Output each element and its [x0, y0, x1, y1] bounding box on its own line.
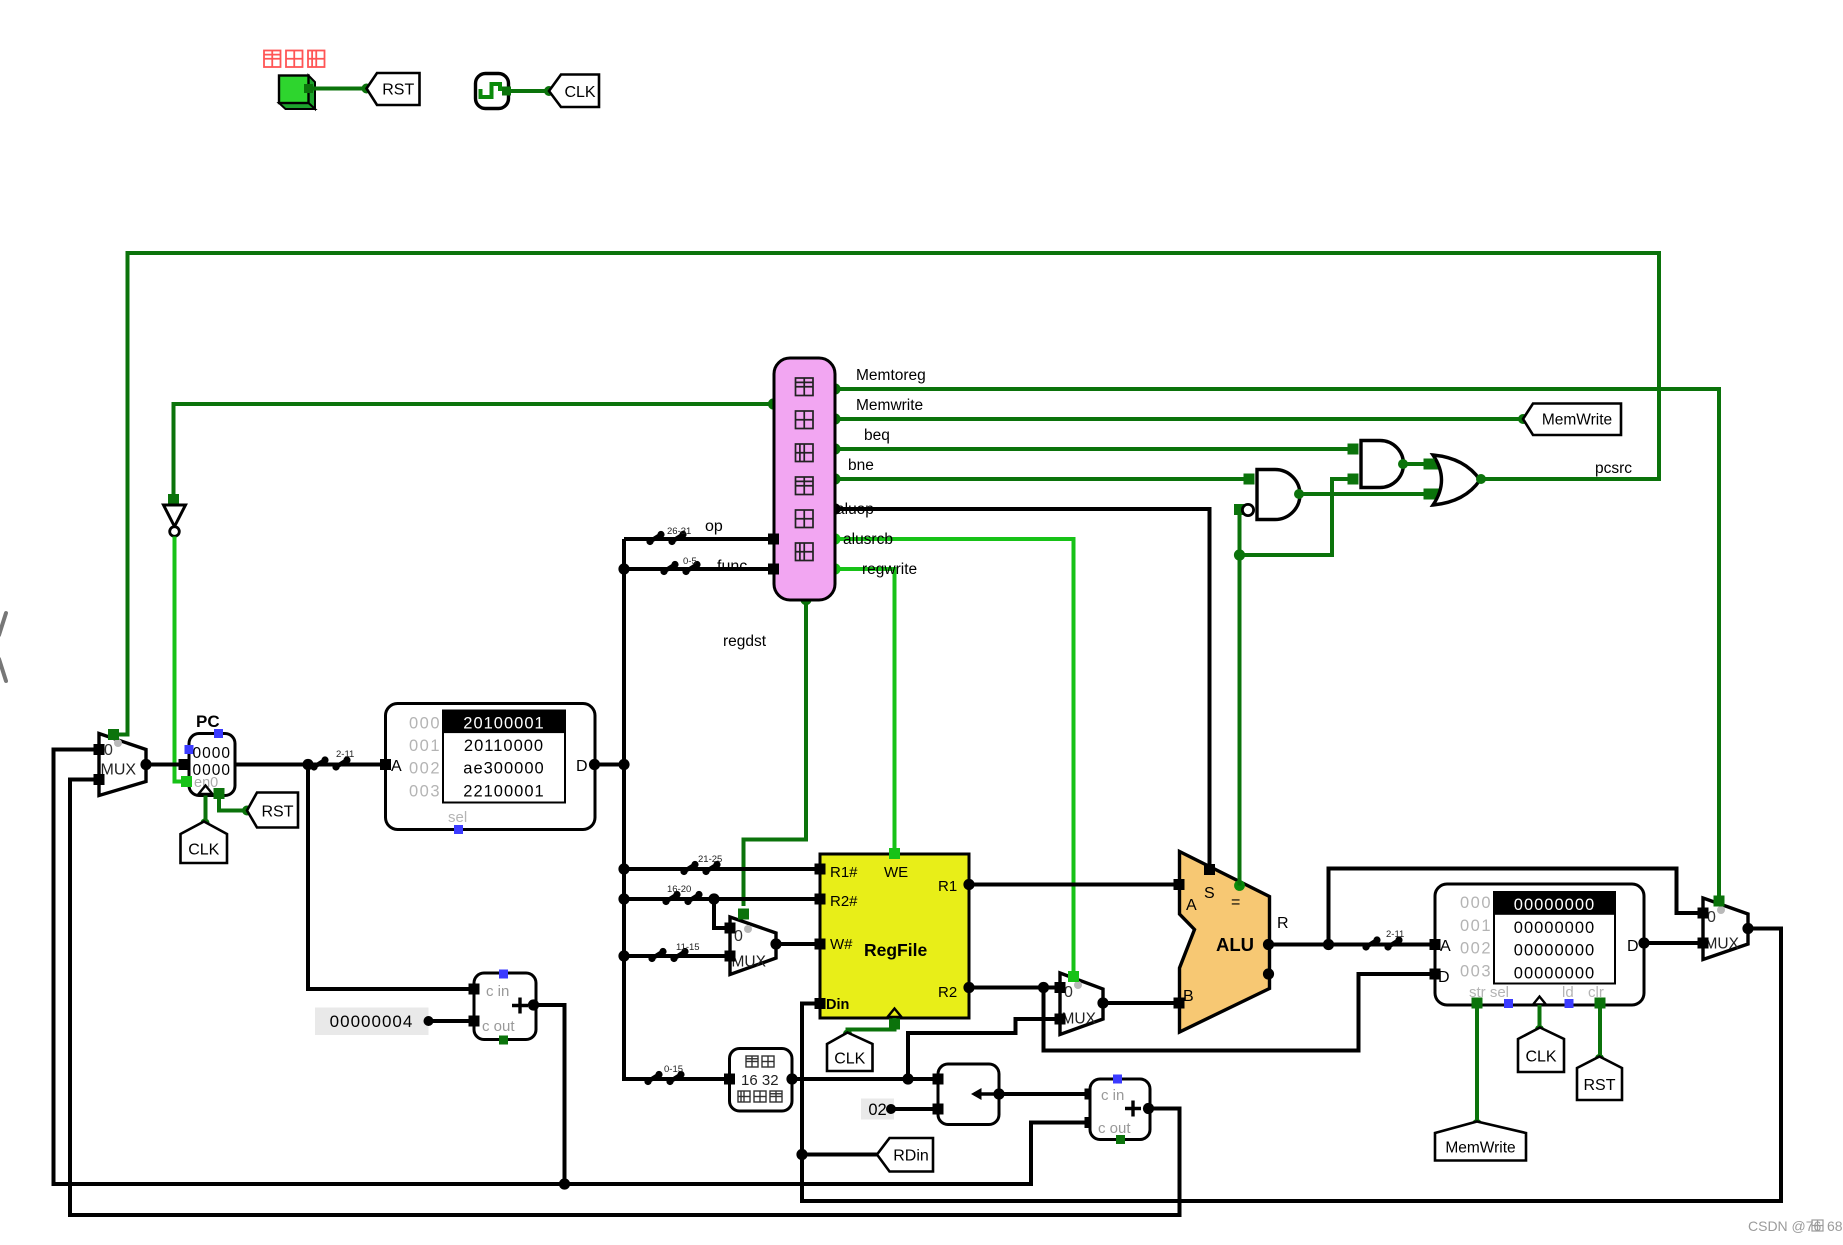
- node ROM D output: [589, 759, 600, 770]
- svg-text:PC: PC: [196, 712, 220, 731]
- pin pad MUX4 select (over): [1714, 896, 1725, 907]
- pin pad AND1 input A: [1244, 474, 1255, 485]
- svg-text:R1: R1: [938, 878, 957, 895]
- pin pad MUX2 input 0 (over): [725, 923, 736, 934]
- svg-text:0-5: 0-5: [683, 556, 697, 567]
- node MUX4 output: [1742, 923, 1753, 934]
- svg-text:R2: R2: [938, 984, 957, 1001]
- svg-text:alusrcb: alusrcb: [843, 531, 893, 548]
- node controller alusrcb pin: [829, 533, 840, 544]
- wire RDin branch: [802, 1153, 877, 1157]
- wire Memwrite net: [835, 417, 1523, 421]
- splitter bits 11-15: [648, 955, 655, 962]
- RAM clock triangle: [1533, 997, 1546, 1005]
- pin pad RegFile WE pin (over): [889, 848, 900, 859]
- inverter NOT gate pointing down: [164, 505, 186, 527]
- node RST tunnel tip (PC): [242, 806, 252, 816]
- node ALU equal output: [1234, 880, 1245, 891]
- svg-text:CLK: CLK: [834, 1050, 865, 1067]
- multiplexer MUX4 (writeback select): [1703, 898, 1748, 960]
- pin pad OR input A: [1429, 459, 1440, 470]
- svg-text:Din: Din: [826, 997, 849, 1013]
- pin pad MUX1 input 0: [94, 744, 105, 755]
- wire G2 out to OR input A: [1403, 462, 1430, 466]
- pin pad RegFile clk pin: [889, 1019, 900, 1030]
- tunnel RDin: [877, 1138, 933, 1172]
- wire shifter out to adder2: [999, 1092, 1087, 1096]
- register PC: [189, 734, 235, 796]
- svg-text:MUX: MUX: [732, 954, 767, 971]
- multiplexer MUX3 (ALU B source): [1060, 973, 1103, 1035]
- svg-text:002: 002: [409, 760, 441, 778]
- pin pad sign extender input: [724, 1074, 735, 1085]
- pin pad AND1 inverted input: [1234, 504, 1245, 515]
- svg-text:c out: c out: [1098, 1120, 1131, 1137]
- node MUX2 output: [770, 938, 781, 949]
- svg-text:0-15: 0-15: [664, 1064, 683, 1075]
- pin pad MUX1 input 1: [94, 774, 105, 785]
- svg-text:MUX: MUX: [101, 762, 137, 779]
- pin pad MUX2 input 1 (over): [725, 951, 736, 962]
- AND gate G2 (beq and equal): [1361, 441, 1404, 488]
- wire PC output to ROM A: [235, 763, 383, 767]
- svg-text:RST: RST: [262, 803, 294, 820]
- svg-text:=: =: [1231, 894, 1240, 911]
- wire R1 to ALU A: [969, 883, 1176, 887]
- svg-text:RST: RST: [382, 81, 414, 98]
- tunnel MemWrite (below RAM): [1435, 1122, 1526, 1161]
- multiplexer MUX2 (write register select): [730, 917, 776, 975]
- pin pad RegFile R2# pin (over): [815, 894, 826, 905]
- svg-text:00000000: 00000000: [1514, 896, 1595, 914]
- node G3 output: [1476, 474, 1486, 484]
- node CLK tunnel tip (PC): [200, 818, 209, 827]
- wire RAM clk to CLK tunnel: [1538, 1005, 1542, 1028]
- node adder1 output: [528, 999, 539, 1010]
- pin pad AND2 input B: [1348, 474, 1359, 485]
- tunnel MemWrite (right): [1523, 404, 1621, 436]
- wire pcsrc net from OR gate across top to MUX1 select: [116, 253, 1659, 735]
- node CLK tunnel tip (RegFile): [843, 1029, 852, 1038]
- node G2 output: [1398, 459, 1408, 469]
- node controller aluop pin: [829, 503, 840, 514]
- node G1 output: [1294, 489, 1304, 499]
- svg-text:20100001: 20100001: [463, 715, 544, 733]
- node CLK tunnel tip: [544, 86, 554, 96]
- node MUX1 output: [140, 759, 151, 770]
- svg-text:0: 0: [104, 742, 113, 759]
- wire pc4 net to MUX1 and adder2: [54, 750, 1088, 1185]
- svg-text:MUX: MUX: [1062, 1011, 1097, 1028]
- wire RAM D out to MUX4: [1644, 941, 1700, 945]
- pin pad ROM A pin: [380, 759, 391, 770]
- svg-text:regdst: regdst: [723, 633, 767, 650]
- node RAM D output: [1638, 937, 1649, 948]
- svg-text:000: 000: [1460, 894, 1492, 912]
- pin pad adder1 input A (over): [469, 984, 480, 995]
- svg-text:16-20: 16-20: [667, 884, 691, 895]
- svg-text:R2#: R2#: [830, 893, 858, 910]
- node MemWrite tunnel tip: [1518, 414, 1528, 424]
- svg-text:D: D: [576, 758, 588, 775]
- pin pad ALU A pin: [1174, 879, 1185, 890]
- svg-text:c in: c in: [1101, 1087, 1124, 1104]
- node RegFile R2 output: [963, 982, 974, 993]
- node RDin junction: [796, 1149, 807, 1160]
- adder A2 (branch target): [1090, 1079, 1150, 1140]
- node bus/ROM junction: [618, 759, 629, 770]
- OR gate G3 (pcsrc): [1433, 455, 1480, 505]
- pin pad RegFile W# pin (over): [815, 939, 826, 950]
- wire func wire: [624, 567, 770, 571]
- svg-text:21-25: 21-25: [698, 854, 722, 865]
- svg-text:20110000: 20110000: [464, 737, 544, 755]
- pin pad adder1 input A: [469, 984, 480, 995]
- node controller Memwrite pin: [829, 413, 840, 424]
- svg-text:MUX: MUX: [1705, 936, 1740, 953]
- svg-text:MemWrite: MemWrite: [1445, 1139, 1515, 1156]
- svg-text:00000004: 00000004: [330, 1012, 414, 1031]
- pin pad RAM str pin: [1472, 998, 1483, 1009]
- pin pad MUX1 select: [108, 729, 119, 740]
- wire R2 to MUX3: [969, 986, 1055, 990]
- svg-text:22100001: 22100001: [463, 782, 544, 800]
- constant 02: [861, 1099, 894, 1120]
- wire MUX1 out to PC D: [146, 763, 182, 767]
- pin pad MUX3 select (over): [1068, 971, 1079, 982]
- tunnel CLK (below PC): [181, 822, 228, 864]
- wire clock to CLK tunnel: [508, 89, 549, 93]
- pin pad PC D pin (over): [179, 759, 190, 770]
- splitter PC addr bits 2-11: [310, 763, 317, 770]
- pin pad PC reset pin: [214, 788, 225, 799]
- svg-text:RegFile: RegFile: [864, 940, 927, 960]
- svg-text:WE: WE: [884, 864, 908, 881]
- pin pad AND2 input A: [1348, 444, 1359, 455]
- RegFile register file: [820, 854, 969, 1018]
- pin pad OR input A (over): [1424, 459, 1435, 470]
- wire imm branch to MUX3: [908, 1019, 1057, 1079]
- node pc4 junction: [559, 1178, 570, 1189]
- pin pad RAM Din pin: [1430, 969, 1441, 980]
- pin pad RegFile R1# pin: [815, 864, 826, 875]
- wire instruction bus vertical + 0-15 branch: [624, 539, 730, 1079]
- RAM data memory: [1435, 884, 1644, 1005]
- ALU arithmetic logic unit: [1180, 852, 1270, 1033]
- wire alusrcb net: [835, 539, 1074, 974]
- pin pad MUX4 input 1: [1698, 938, 1709, 949]
- pin pad MUX2 input 0: [725, 923, 736, 934]
- node controller beq pin: [829, 443, 840, 454]
- svg-text:00000000: 00000000: [1514, 942, 1595, 960]
- wire branch target net: [70, 780, 1180, 1216]
- clock source component: [476, 74, 509, 109]
- node ALU aux output: [1263, 968, 1274, 979]
- svg-text:B: B: [1183, 988, 1194, 1005]
- svg-text:R: R: [1277, 915, 1289, 932]
- wire R2# branch to MUX2: [714, 899, 728, 928]
- wire adder1 out down: [534, 1005, 565, 1184]
- wire beq net: [835, 447, 1353, 451]
- pin pad MUX2 input 1: [725, 951, 736, 962]
- svg-text:aluop: aluop: [836, 501, 874, 518]
- svg-text:02: 02: [868, 1101, 886, 1119]
- node imm junction: [902, 1073, 913, 1084]
- node adder2 output: [1143, 1103, 1154, 1114]
- pin pad button output: [304, 84, 313, 93]
- tunnel RST (below RAM): [1577, 1057, 1622, 1101]
- multiplexer MUX1 (PC source select): [99, 734, 146, 796]
- svg-text:16 32: 16 32: [741, 1072, 779, 1089]
- node bus/11-15 junction: [618, 950, 629, 961]
- node RegFile R1 output: [963, 879, 974, 890]
- svg-text:CLK: CLK: [1525, 1048, 1556, 1065]
- wire const4 to adder1: [429, 1019, 473, 1023]
- svg-text:RDin: RDin: [893, 1148, 929, 1165]
- node CLK tunnel tip (RAM): [1535, 1025, 1544, 1034]
- svg-text:Memtoreg: Memtoreg: [856, 367, 926, 384]
- pin pad ALU S pin (over): [1204, 864, 1215, 875]
- svg-text:002: 002: [1460, 940, 1492, 958]
- svg-text:00000000: 00000000: [1514, 964, 1595, 982]
- wire G1 out to OR input B: [1299, 492, 1430, 496]
- pin pad OR input B: [1429, 489, 1440, 500]
- node R2 junction: [1038, 982, 1049, 993]
- wire RegFile clk wire: [848, 1018, 895, 1034]
- svg-text:000: 000: [409, 715, 441, 733]
- node shifter output: [993, 1088, 1004, 1099]
- node RST tunnel tip: [362, 84, 372, 94]
- svg-text:A: A: [1440, 938, 1451, 955]
- svg-text:ae300000: ae300000: [463, 760, 544, 778]
- label 总复位 (red): [264, 51, 281, 68]
- pin pad RAM clr pin: [1595, 998, 1606, 1009]
- pin pad RegFile WE pin: [889, 848, 900, 859]
- node PC out junction: [302, 759, 313, 770]
- node bus/R1# junction: [618, 863, 629, 874]
- node RST tunnel tip (RAM): [1595, 1054, 1604, 1063]
- pin pad adder2 input A: [1085, 1089, 1096, 1100]
- node controller bne pin: [829, 473, 840, 484]
- wire op wire: [624, 537, 770, 541]
- tunnel RST (top left): [367, 73, 420, 105]
- splitter addr bits 2-11 (RAM): [1362, 943, 1369, 950]
- pin pad RegFile W# pin: [815, 939, 826, 950]
- svg-text:A: A: [1186, 897, 1197, 914]
- splitter bits 16-20: [662, 898, 669, 905]
- pin pad inverter input: [168, 494, 179, 505]
- svg-text:003: 003: [1460, 962, 1492, 980]
- tunnel RST (below PC): [247, 793, 298, 828]
- pin pad ROM A pin (over): [380, 759, 391, 770]
- shifter shift-left-2: [938, 1064, 999, 1125]
- pin pad ALU B pin: [1174, 998, 1185, 1009]
- svg-text:pcsrc: pcsrc: [1595, 460, 1632, 477]
- tunnel CLK (top left): [549, 75, 599, 108]
- pin pad clock output: [502, 87, 511, 96]
- svg-text:CLK: CLK: [188, 841, 219, 858]
- node controller regwrite pin: [829, 563, 840, 574]
- svg-text:func: func: [717, 558, 747, 575]
- svg-text:S: S: [1204, 885, 1215, 902]
- node ALU R output: [1263, 939, 1274, 950]
- wire str to MemWrite tunnel: [1475, 1008, 1479, 1122]
- wire R1# wire: [624, 867, 817, 871]
- splitter bits 0-15: [644, 1078, 651, 1085]
- svg-text:regwrite: regwrite: [862, 561, 917, 578]
- splitter func bits 0-5: [660, 568, 667, 575]
- pin pad MUX4 select: [1714, 896, 1725, 907]
- node controller regdst pin: [800, 594, 811, 605]
- controller U1 (single-cycle control unit): [774, 358, 835, 600]
- adder A1 (PC plus 4): [474, 973, 536, 1040]
- wire 11-15 wire to MUX2: [624, 954, 728, 958]
- pin pad adder2 input B: [1085, 1117, 1096, 1128]
- svg-text:003: 003: [409, 782, 441, 800]
- pin pad ALU S pin: [1204, 864, 1215, 875]
- wire equal to AND2 input B: [1240, 479, 1354, 555]
- pin pad MUX2 select: [738, 909, 749, 920]
- pin pad MUX1 select (over): [108, 729, 119, 740]
- node bus/func junction: [618, 563, 629, 574]
- pin pad RegFile R2# pin: [815, 894, 826, 905]
- pin pad PC en pin: [181, 776, 192, 787]
- gray cursor marks at left edge: [0, 613, 6, 681]
- pin pad RegFile Din pin: [815, 998, 826, 1009]
- svg-text:00000000: 00000000: [1514, 919, 1595, 937]
- node R junction: [1323, 939, 1334, 950]
- wire imm to shifter: [792, 1077, 935, 1081]
- pin pad shifter input A: [933, 1074, 944, 1085]
- ROM instruction memory: [386, 704, 596, 830]
- splitter bits 21-25: [680, 868, 687, 875]
- wire MUX2 out to W#: [776, 942, 817, 946]
- node controller Memtoreg pin: [829, 383, 840, 394]
- pin pad PC en pin (over): [181, 776, 192, 787]
- svg-text:2-11: 2-11: [336, 749, 354, 760]
- pin pad RAM Din pin (over): [1430, 969, 1441, 980]
- svg-text:sel: sel: [448, 809, 467, 826]
- splitter op bits 26-31: [646, 538, 653, 545]
- svg-text:RST: RST: [1584, 1077, 1616, 1094]
- pin pad RegFile R1# pin (over): [815, 864, 826, 875]
- wire aluop net: [835, 509, 1210, 867]
- pin pad PC D pin: [179, 759, 190, 770]
- wire Memtoreg net: [835, 389, 1719, 898]
- wire bne net: [835, 477, 1249, 481]
- pin pad controller func pin: [768, 564, 779, 575]
- svg-text:R1#: R1#: [830, 864, 858, 881]
- sign extender 16to32: [730, 1049, 793, 1112]
- svg-text:001: 001: [1460, 917, 1492, 935]
- wire R2 store-data to RAM D: [1044, 974, 1433, 1051]
- wire regwrite net: [835, 569, 895, 851]
- tunnel CLK (below RAM): [1518, 1028, 1564, 1073]
- wire ALU R to RAM A: [1269, 943, 1433, 947]
- wire button to RST tunnel: [310, 87, 367, 91]
- svg-text:0000: 0000: [193, 745, 231, 762]
- node const02 output: [886, 1104, 896, 1114]
- svg-text:CSDN @76: CSDN @76: [1748, 1218, 1822, 1234]
- node equal junction: [1234, 549, 1245, 560]
- pin pad sign extender input (over): [724, 1074, 735, 1085]
- pin pad MUX3 input 1: [1055, 1014, 1066, 1025]
- svg-text:c out: c out: [482, 1018, 515, 1035]
- button RST (green push button): [309, 76, 316, 110]
- svg-text:001: 001: [409, 737, 441, 755]
- pin pad MUX3 select: [1068, 971, 1079, 982]
- wire const02 to shifter: [891, 1107, 935, 1111]
- pin pad MUX4 input 0: [1698, 908, 1709, 919]
- constant 00000004: [315, 1008, 429, 1036]
- svg-text:CLK: CLK: [564, 84, 595, 101]
- wire PC rst to RST tunnel: [219, 795, 245, 811]
- wire RAM clr to RST tunnel: [1598, 1008, 1602, 1057]
- AND gate G1 (bne and not-equal): [1257, 469, 1300, 519]
- wire writeback to Din: [802, 929, 1781, 1202]
- svg-text:MemWrite: MemWrite: [1542, 412, 1612, 429]
- controller vertical title 单周期控制器: [796, 378, 814, 396]
- svg-text:2-11: 2-11: [1386, 929, 1404, 940]
- node bus/R2# junction: [618, 893, 629, 904]
- RegFile clock triangle: [888, 1009, 902, 1018]
- pin pad AND2 input A (over): [1348, 444, 1359, 455]
- wire ALU equal up to gates: [1238, 510, 1242, 886]
- node MUX3 output: [1097, 997, 1108, 1008]
- svg-text:ld: ld: [1562, 984, 1574, 1001]
- pin pad MUX3 input 0: [1055, 982, 1066, 993]
- svg-text:beq: beq: [864, 427, 890, 444]
- node controller left pin: [768, 398, 779, 409]
- wire ROM D to bus: [595, 763, 625, 767]
- node MemWrite tunnel tip (RAM): [1472, 1119, 1482, 1129]
- pin pad AND2 input B (over): [1348, 474, 1359, 485]
- extender title 符号 16 32 扩展器: [746, 1056, 758, 1067]
- svg-text:11-15: 11-15: [676, 942, 700, 953]
- pin pad MUX2 select (over): [738, 909, 749, 920]
- pin pad controller op pin: [768, 534, 779, 545]
- svg-text:op: op: [705, 518, 723, 535]
- node const4 output: [424, 1016, 434, 1026]
- svg-text:ALU: ALU: [1216, 934, 1254, 955]
- wire PC out down to adder1: [308, 765, 472, 990]
- node R2#/MUX2 junction: [708, 893, 719, 904]
- tunnel CLK (below RegFile): [827, 1033, 873, 1072]
- wire MUX3 out to ALU B: [1103, 1001, 1176, 1005]
- wire controller left pin to inverter: [174, 404, 774, 497]
- pin pad shifter input A (over): [933, 1074, 944, 1085]
- node extender output: [786, 1073, 797, 1084]
- svg-text:D: D: [1627, 938, 1639, 955]
- svg-text:68: 68: [1827, 1218, 1843, 1234]
- svg-text:Memwrite: Memwrite: [856, 397, 923, 414]
- wire PC clk to CLK tunnel: [204, 796, 208, 822]
- svg-text:26-31: 26-31: [667, 526, 691, 537]
- svg-text:A: A: [391, 758, 402, 775]
- PC clock triangle: [199, 786, 213, 795]
- svg-text:c in: c in: [486, 983, 509, 1000]
- wire R2# wire: [624, 897, 817, 901]
- pin pad OR input B (over): [1424, 489, 1435, 500]
- wire R up-over to MUX4: [1329, 869, 1701, 945]
- svg-text:W#: W#: [830, 936, 853, 953]
- wire regdst net: [744, 600, 807, 906]
- wire inverter out to PC enable: [175, 537, 185, 782]
- svg-text:bne: bne: [848, 457, 874, 474]
